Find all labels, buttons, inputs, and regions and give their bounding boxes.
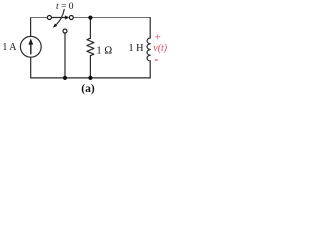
resistor R zigzag — [87, 38, 94, 56]
svg-text:v(t): v(t) — [153, 43, 168, 54]
wire right branch lower — [149, 61, 151, 78]
wire switch lower-throw branch — [64, 33, 66, 78]
wire left branch lower — [30, 57, 32, 78]
wire right branch upper — [149, 18, 151, 38]
svg-text:+: + — [155, 31, 161, 43]
wire top-left segment — [30, 17, 47, 19]
wire resistor top lead — [89, 18, 91, 39]
svg-text:1 Ω: 1 Ω — [96, 46, 112, 57]
wire left branch upper — [30, 18, 32, 37]
node dot bottom (R bottom) — [88, 76, 92, 80]
svg-text:1 H: 1 H — [129, 43, 145, 54]
wire top-right segment — [73, 17, 150, 19]
svg-text:t = 0: t = 0 — [56, 2, 74, 12]
svg-text:(a): (a) — [81, 83, 95, 95]
switch terminal circle left — [47, 16, 51, 20]
switch terminal circle bottom — [63, 29, 67, 33]
svg-text:1 A: 1 A — [2, 42, 17, 53]
wire bottom — [31, 77, 151, 79]
switch motion arc — [55, 9, 64, 25]
switch motion arrowhead — [53, 24, 58, 28]
switch terminal circle right — [69, 16, 73, 20]
current source arrow — [28, 38, 33, 54]
inductor L coil — [147, 38, 150, 61]
switch blade arrowhead — [65, 15, 69, 19]
node dot top (R top) — [88, 16, 92, 20]
node dot bottom (switch branch) — [63, 76, 67, 80]
switch blade (closed) — [52, 17, 66, 19]
wire resistor bottom lead — [89, 56, 91, 78]
label minus polarity — [155, 59, 158, 60]
current source I1 circle — [20, 36, 41, 57]
